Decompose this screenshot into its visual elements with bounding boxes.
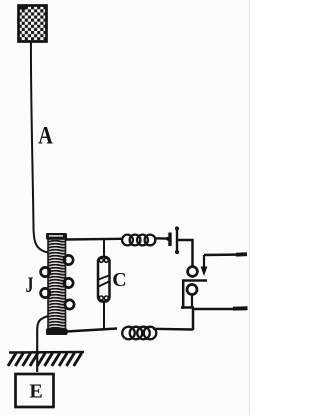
condenser C tube	[98, 257, 110, 302]
scan page edge (right)	[249, 0, 250, 415]
svg-text:E: E	[29, 381, 42, 403]
earth box E	[16, 374, 54, 407]
antenna plate (top)	[18, 5, 47, 42]
wire coil to ground	[37, 316, 48, 372]
ground (earth hatching)	[8, 352, 84, 366]
wire battery to detector	[177, 240, 193, 267]
svg-text:J: J	[26, 272, 34, 297]
battery cell (long plate)	[175, 226, 179, 254]
svg-text:C: C	[112, 269, 126, 291]
top RF choke coil	[122, 235, 155, 246]
bottom RF choke coil	[122, 327, 156, 340]
adjusting arrow	[201, 255, 208, 276]
coil turn loops	[41, 255, 74, 309]
detector holder box	[183, 281, 207, 308]
bottom wire (coil to right)	[67, 329, 118, 332]
condenser C bottom lead	[103, 302, 105, 331]
phone lead (mid right)	[194, 308, 247, 311]
detector lower contact	[187, 285, 197, 295]
wire box to bottom rail	[192, 308, 195, 331]
battery cell (short plate)	[166, 233, 170, 247]
antenna lead wire A	[31, 41, 48, 253]
wire lower contact to box bottom	[191, 295, 193, 308]
condenser C top lead	[103, 240, 105, 257]
svg-text:A: A	[38, 123, 53, 150]
coil top cap	[46, 233, 67, 240]
detector upper contact	[188, 267, 198, 277]
tuning coil J body	[46, 233, 68, 335]
phone lead (top right)	[204, 253, 246, 256]
coil bottom cap	[46, 329, 68, 336]
top wire (coil to right)	[65, 238, 122, 241]
